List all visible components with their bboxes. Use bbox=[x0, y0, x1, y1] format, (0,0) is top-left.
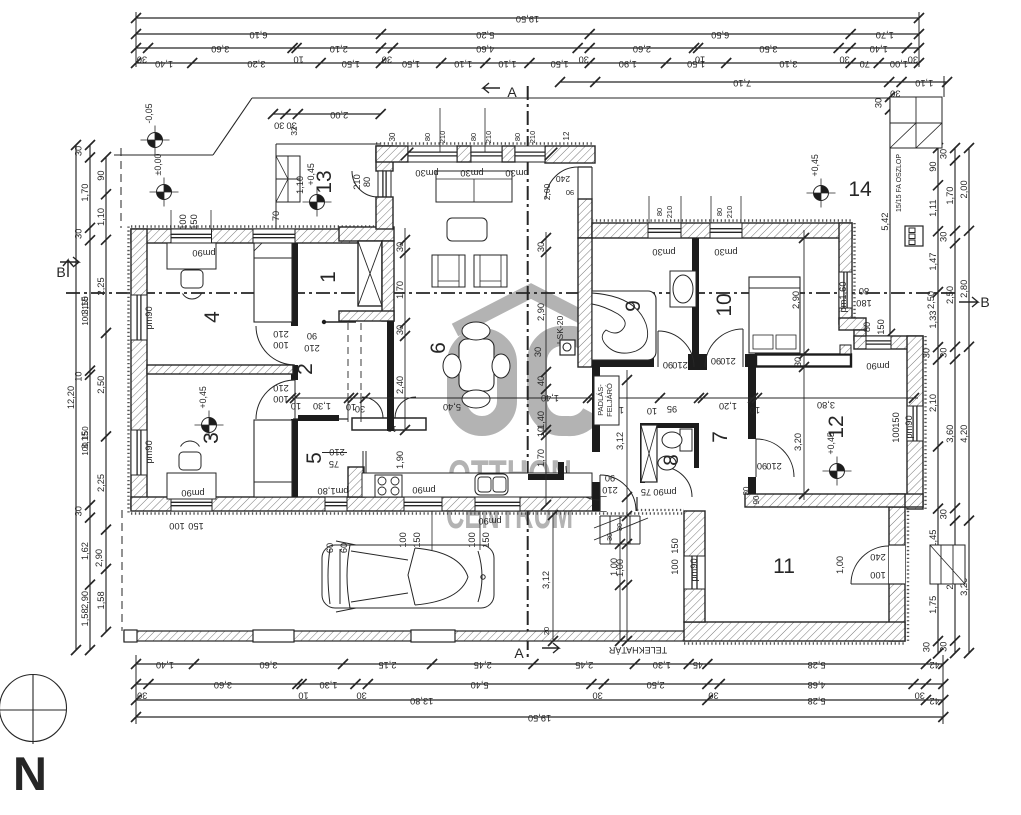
corridor door arcs bottom bbox=[362, 397, 383, 418]
svg-text:2,15: 2,15 bbox=[378, 660, 396, 670]
se bedroom corner jog bbox=[839, 318, 866, 330]
svg-text:210: 210 bbox=[665, 206, 674, 219]
svg-text:1,40: 1,40 bbox=[155, 59, 173, 69]
svg-text:1,75: 1,75 bbox=[928, 596, 938, 614]
svg-text:210: 210 bbox=[720, 356, 736, 366]
svg-text:3,20: 3,20 bbox=[793, 433, 803, 451]
svg-text:1,00: 1,00 bbox=[835, 556, 845, 574]
terrace13 steps bbox=[276, 156, 300, 202]
svg-text:210: 210 bbox=[273, 383, 289, 393]
elevation marker -0,05 bbox=[148, 133, 163, 148]
svg-text:3,60: 3,60 bbox=[259, 660, 277, 670]
svg-text:30: 30 bbox=[939, 509, 949, 519]
svg-text:5,40: 5,40 bbox=[443, 402, 461, 412]
svg-text:2,25: 2,25 bbox=[96, 474, 106, 492]
svg-text:20: 20 bbox=[542, 627, 551, 635]
svg-text:3,60: 3,60 bbox=[214, 680, 232, 690]
svg-text:2,50: 2,50 bbox=[96, 376, 106, 394]
svg-text:1: 1 bbox=[317, 271, 340, 283]
svg-text:2,40: 2,40 bbox=[395, 376, 405, 394]
section line A-A bbox=[527, 86, 529, 658]
svg-text:100: 100 bbox=[178, 214, 188, 230]
door room5 bbox=[322, 452, 347, 454]
svg-text:11: 11 bbox=[773, 555, 795, 578]
svg-text:80: 80 bbox=[362, 177, 372, 187]
bath9 south wall solid bbox=[592, 354, 654, 367]
svg-text:2,50: 2,50 bbox=[945, 286, 955, 304]
room4 chair bbox=[181, 270, 203, 288]
svg-text:2,45: 2,45 bbox=[575, 660, 593, 670]
bath9 west wall bbox=[578, 238, 592, 367]
svg-text:30: 30 bbox=[939, 642, 949, 652]
interior corridor wall rooms 4/3 bbox=[291, 243, 298, 326]
north arrow bbox=[0, 675, 67, 742]
svg-text:10: 10 bbox=[713, 293, 736, 316]
svg-text:70: 70 bbox=[860, 59, 870, 69]
svg-text:1,33: 1,33 bbox=[928, 311, 938, 329]
svg-text:30: 30 bbox=[793, 357, 803, 367]
right dimension chains bbox=[889, 97, 891, 334]
svg-text:1,70: 1,70 bbox=[395, 281, 405, 299]
svg-text:A: A bbox=[507, 84, 517, 100]
svg-text:±0,00: ±0,00 bbox=[153, 153, 163, 175]
bath9 door bbox=[658, 331, 694, 367]
svg-text:75: 75 bbox=[641, 487, 651, 497]
svg-text:B: B bbox=[56, 264, 65, 280]
vdim x=627 hall7 3,12 / 1,00 bbox=[626, 370, 628, 641]
svg-text:90: 90 bbox=[752, 495, 761, 504]
terrace13 door arc bbox=[352, 171, 378, 197]
svg-text:30: 30 bbox=[939, 149, 949, 159]
interior vdim living east x=546 bbox=[545, 232, 547, 505]
svg-text:100: 100 bbox=[81, 442, 90, 456]
svg-text:210: 210 bbox=[304, 343, 320, 353]
svg-text:32: 32 bbox=[289, 126, 299, 136]
svg-text:2,10: 2,10 bbox=[928, 394, 938, 412]
svg-text:1,10: 1,10 bbox=[295, 176, 305, 194]
svg-text:pm90: pm90 bbox=[904, 415, 914, 438]
svg-text:30: 30 bbox=[388, 132, 397, 141]
coffee table bbox=[447, 218, 487, 241]
svg-text:150: 150 bbox=[81, 426, 90, 440]
west wall bbox=[127, 227, 129, 515]
svg-text:150: 150 bbox=[876, 319, 886, 335]
left dimension chains bbox=[75, 145, 77, 650]
svg-text:N: N bbox=[13, 747, 47, 800]
svg-text:5,28: 5,28 bbox=[808, 660, 826, 670]
svg-text:240: 240 bbox=[556, 174, 570, 184]
svg-text:12: 12 bbox=[825, 415, 848, 438]
svg-text:210: 210 bbox=[528, 131, 537, 144]
svg-text:100: 100 bbox=[398, 532, 408, 548]
svg-text:30: 30 bbox=[922, 642, 932, 652]
garage door arc bbox=[851, 546, 889, 584]
svg-text:1,50: 1,50 bbox=[402, 59, 420, 69]
svg-text:100: 100 bbox=[273, 340, 289, 350]
svg-text:70: 70 bbox=[271, 211, 281, 221]
hall7 / room12 divider bbox=[748, 367, 756, 439]
svg-text:5,40: 5,40 bbox=[471, 680, 489, 690]
svg-text:60: 60 bbox=[339, 543, 349, 553]
svg-text:1,62: 1,62 bbox=[80, 542, 90, 560]
svg-text:1,10: 1,10 bbox=[915, 78, 933, 88]
svg-text:10: 10 bbox=[298, 691, 308, 701]
svg-text:90: 90 bbox=[96, 170, 106, 180]
svg-text:210: 210 bbox=[273, 329, 289, 339]
bed10 door bbox=[705, 329, 743, 367]
svg-text:210: 210 bbox=[352, 174, 362, 190]
svg-text:2: 2 bbox=[294, 363, 317, 375]
svg-text:210: 210 bbox=[329, 447, 345, 457]
svg-text:42: 42 bbox=[929, 660, 939, 670]
svg-text:1,50: 1,50 bbox=[342, 59, 360, 69]
svg-text:80: 80 bbox=[862, 322, 872, 332]
svg-text:80: 80 bbox=[423, 133, 432, 141]
svg-text:80: 80 bbox=[859, 286, 869, 296]
wc shaft bbox=[641, 425, 657, 482]
svg-text:30: 30 bbox=[74, 229, 84, 239]
svg-text:+0,45: +0,45 bbox=[198, 386, 208, 408]
svg-text:13: 13 bbox=[313, 170, 336, 193]
svg-text:1,90: 1,90 bbox=[619, 59, 637, 69]
svg-text:80: 80 bbox=[513, 133, 522, 141]
terrace steps chain 2,00 bbox=[273, 113, 381, 115]
svg-text:2,45: 2,45 bbox=[474, 660, 492, 670]
svg-text:150: 150 bbox=[81, 296, 90, 310]
svg-text:10: 10 bbox=[74, 371, 84, 381]
svg-text:60: 60 bbox=[325, 543, 335, 553]
svg-text:1,47: 1,47 bbox=[928, 253, 938, 271]
south wall west wing + kitchen bbox=[131, 512, 705, 514]
svg-text:1,50: 1,50 bbox=[551, 59, 569, 69]
svg-text:-0,05: -0,05 bbox=[144, 103, 154, 123]
svg-text:240: 240 bbox=[870, 552, 886, 562]
elevation marker ±0,00 bbox=[157, 185, 172, 200]
room3 chair bbox=[179, 452, 201, 470]
jog room12/garage bbox=[889, 494, 923, 507]
dim 3,12 south bbox=[552, 515, 554, 641]
svg-text:2,90: 2,90 bbox=[94, 549, 104, 567]
wc sink bbox=[658, 456, 676, 470]
svg-text:1,70: 1,70 bbox=[876, 30, 894, 40]
svg-text:1,30: 1,30 bbox=[653, 660, 671, 670]
svg-text:5: 5 bbox=[303, 452, 326, 464]
svg-text:3,10: 3,10 bbox=[779, 59, 797, 69]
padlas feljaro bbox=[594, 376, 619, 425]
svg-text:12,20: 12,20 bbox=[66, 386, 76, 409]
wc8 walls bbox=[640, 423, 698, 428]
svg-text:45: 45 bbox=[693, 660, 703, 670]
corner hatch triangle bbox=[840, 345, 851, 354]
svg-text:1,50: 1,50 bbox=[687, 59, 705, 69]
sink bbox=[475, 474, 508, 495]
svg-text:210: 210 bbox=[672, 360, 688, 370]
watermark OC Otthon Centrum logo bbox=[455, 291, 607, 426]
rooms 9/10 top wall bbox=[592, 219, 852, 221]
svg-text:3,20: 3,20 bbox=[247, 59, 265, 69]
vdim room10 2,90 bbox=[803, 230, 805, 500]
svg-text:2,90: 2,90 bbox=[80, 591, 90, 609]
elevation marker +0,45 bbox=[202, 418, 217, 433]
entry door bbox=[600, 475, 636, 511]
svg-text:pm30: pm30 bbox=[415, 168, 438, 178]
dining table bbox=[459, 339, 494, 391]
svg-text:90: 90 bbox=[307, 331, 317, 341]
room5 walls bbox=[293, 418, 348, 420]
interior vdim living west x=405 bbox=[404, 228, 406, 430]
svg-text:pm90: pm90 bbox=[144, 306, 154, 329]
living west wall + terrace door bbox=[376, 146, 393, 171]
svg-text:150: 150 bbox=[670, 538, 680, 554]
elevation marker +0,45 bbox=[814, 186, 829, 201]
svg-text:1,20: 1,20 bbox=[719, 401, 737, 411]
svg-text:1,10: 1,10 bbox=[498, 59, 516, 69]
east garage steps bbox=[930, 545, 965, 584]
divider 9/10 bbox=[692, 238, 699, 356]
svg-text:9: 9 bbox=[622, 300, 645, 312]
armchair 2 bbox=[474, 255, 507, 287]
room4 bed bbox=[254, 243, 292, 322]
svg-text:42: 42 bbox=[929, 696, 939, 706]
svg-text:30: 30 bbox=[137, 691, 147, 701]
kitchen/hall wall bbox=[592, 367, 600, 452]
svg-text:30: 30 bbox=[533, 347, 543, 357]
svg-text:75: 75 bbox=[329, 459, 339, 469]
svg-text:1,40: 1,40 bbox=[536, 411, 546, 429]
svg-text:30: 30 bbox=[617, 523, 624, 531]
svg-text:1,70: 1,70 bbox=[80, 184, 90, 202]
svg-text:100: 100 bbox=[169, 521, 185, 531]
svg-text:10: 10 bbox=[750, 405, 760, 415]
svg-text:2,80: 2,80 bbox=[959, 280, 969, 298]
svg-text:30: 30 bbox=[708, 691, 718, 701]
svg-text:1,00: 1,00 bbox=[890, 59, 908, 69]
svg-text:A: A bbox=[514, 645, 524, 661]
svg-text:7,10: 7,10 bbox=[733, 78, 751, 88]
svg-text:10: 10 bbox=[291, 401, 301, 411]
svg-text:210: 210 bbox=[438, 131, 447, 144]
bedroom10 east wall bbox=[853, 223, 855, 318]
svg-text:5,42: 5,42 bbox=[880, 213, 890, 231]
svg-text:30: 30 bbox=[74, 146, 84, 156]
washbasin bath9 bbox=[670, 271, 696, 307]
svg-text:1,58: 1,58 bbox=[96, 591, 106, 609]
svg-text:4,20: 4,20 bbox=[959, 425, 969, 443]
svg-text:pm1,60: pm1,60 bbox=[838, 281, 848, 312]
window axis ext lines bbox=[431, 511, 433, 550]
terrace13 outline bbox=[275, 144, 277, 229]
svg-text:3,60: 3,60 bbox=[211, 44, 229, 54]
svg-text:10: 10 bbox=[647, 406, 657, 416]
garage south wall bbox=[684, 642, 905, 644]
interior dim chain horizontal y=398 bbox=[291, 397, 918, 399]
svg-text:PADLÁS-: PADLÁS- bbox=[596, 384, 605, 416]
elevation marker +0,45 bbox=[310, 195, 325, 210]
svg-text:100: 100 bbox=[467, 532, 477, 548]
svg-text:90: 90 bbox=[711, 356, 721, 366]
svg-text:30: 30 bbox=[915, 691, 925, 701]
svg-text:3,50: 3,50 bbox=[759, 44, 777, 54]
svg-text:10: 10 bbox=[346, 402, 356, 412]
svg-text:100: 100 bbox=[891, 427, 901, 443]
svg-text:2,60: 2,60 bbox=[633, 44, 651, 54]
south entry steps bbox=[599, 516, 601, 544]
svg-text:150: 150 bbox=[481, 532, 491, 548]
svg-text:30: 30 bbox=[742, 486, 751, 495]
svg-text:30: 30 bbox=[607, 533, 614, 541]
wc door bbox=[662, 467, 692, 497]
svg-text:TELEKHATÁR: TELEKHATÁR bbox=[608, 645, 667, 655]
svg-text:10: 10 bbox=[536, 427, 546, 437]
svg-text:6: 6 bbox=[427, 342, 450, 354]
wc toilet bbox=[680, 429, 692, 451]
svg-text:pm30: pm30 bbox=[714, 247, 737, 257]
living east wall + terrace door opening bbox=[578, 167, 592, 199]
svg-text:95: 95 bbox=[667, 404, 677, 414]
svg-text:150: 150 bbox=[188, 521, 204, 531]
svg-text:180: 180 bbox=[856, 298, 872, 308]
svg-text:pm90: pm90 bbox=[412, 485, 435, 495]
svg-text:2,00: 2,00 bbox=[542, 183, 552, 200]
svg-text:FELJÁRÓ: FELJÁRÓ bbox=[605, 383, 614, 417]
svg-text:5,28: 5,28 bbox=[808, 696, 826, 706]
svg-text:pm90: pm90 bbox=[689, 558, 699, 581]
divider room4/room3 bbox=[147, 365, 293, 374]
svg-text:210: 210 bbox=[725, 206, 734, 219]
svg-text:90: 90 bbox=[566, 188, 574, 197]
svg-text:30: 30 bbox=[356, 691, 366, 701]
hall1 top wall + flue bbox=[339, 227, 394, 241]
bath tub bbox=[592, 291, 656, 360]
west wing top wall bbox=[131, 225, 376, 227]
svg-text:14: 14 bbox=[848, 178, 872, 201]
svg-text:30: 30 bbox=[395, 242, 405, 252]
svg-text:30: 30 bbox=[939, 232, 949, 242]
svg-text:90: 90 bbox=[757, 461, 767, 471]
svg-text:19,50: 19,50 bbox=[516, 14, 539, 24]
svg-text:100: 100 bbox=[670, 559, 680, 575]
svg-text:4,60: 4,60 bbox=[476, 44, 494, 54]
svg-text:1,58: 1,58 bbox=[80, 608, 90, 626]
svg-text:1,30: 1,30 bbox=[313, 401, 331, 411]
svg-text:150: 150 bbox=[189, 214, 199, 230]
svg-text:pm90: pm90 bbox=[144, 440, 154, 463]
svg-text:13,80: 13,80 bbox=[410, 696, 433, 706]
svg-text:1,40: 1,40 bbox=[870, 44, 888, 54]
svg-text:2,90: 2,90 bbox=[536, 303, 546, 321]
hall7-room12 door bbox=[756, 439, 794, 477]
svg-text:3,80: 3,80 bbox=[817, 400, 835, 410]
dining chairs bbox=[462, 322, 490, 340]
door room3 bbox=[294, 380, 296, 419]
room5 east wall hatched block bbox=[348, 467, 364, 497]
black wall stub kitchen bbox=[528, 474, 564, 480]
svg-text:8: 8 bbox=[660, 454, 683, 466]
svg-text:2,00: 2,00 bbox=[959, 180, 969, 198]
svg-text:1,70: 1,70 bbox=[536, 449, 546, 467]
svg-text:150: 150 bbox=[412, 532, 422, 548]
top-right terrace steps bbox=[890, 97, 942, 148]
corridor2 west wall lower bbox=[298, 415, 339, 421]
svg-text:1,40: 1,40 bbox=[541, 393, 559, 403]
door room4 bbox=[256, 326, 295, 365]
svg-text:4,68: 4,68 bbox=[808, 680, 826, 690]
svg-text:pm30: pm30 bbox=[652, 247, 675, 257]
svg-text:80: 80 bbox=[469, 133, 478, 141]
bed10 south wall outlined bbox=[745, 354, 756, 367]
svg-text:1,11: 1,11 bbox=[928, 199, 938, 216]
svg-text:12: 12 bbox=[562, 131, 571, 140]
dim 1,00 south bbox=[619, 516, 621, 641]
svg-text:pm90: pm90 bbox=[192, 248, 215, 258]
svg-text:1,70: 1,70 bbox=[945, 187, 955, 205]
svg-text:30: 30 bbox=[939, 348, 949, 358]
entry door opening south bbox=[600, 497, 637, 511]
svg-text:30: 30 bbox=[355, 404, 365, 414]
garage east wall bbox=[907, 507, 909, 641]
svg-text:90: 90 bbox=[928, 161, 938, 171]
svg-text:pm90: pm90 bbox=[653, 487, 676, 497]
terrace 14 door arc bbox=[546, 167, 578, 199]
svg-text:30: 30 bbox=[536, 242, 546, 252]
svg-text:150: 150 bbox=[891, 412, 901, 428]
svg-text:90: 90 bbox=[605, 473, 615, 483]
section line B-B bbox=[66, 292, 958, 294]
svg-text:3,60: 3,60 bbox=[945, 425, 955, 443]
svg-text:pm1,80: pm1,80 bbox=[317, 486, 348, 496]
living top wall bbox=[376, 142, 592, 144]
svg-text:2,00: 2,00 bbox=[330, 110, 348, 120]
top dimension chains bbox=[136, 17, 919, 19]
svg-text:80: 80 bbox=[655, 208, 664, 216]
svg-text:30: 30 bbox=[395, 325, 405, 335]
property dashed line left bbox=[120, 148, 122, 228]
svg-text:1,90: 1,90 bbox=[395, 451, 405, 469]
svg-text:30: 30 bbox=[74, 506, 84, 516]
svg-text:pm90: pm90 bbox=[478, 516, 501, 526]
svg-text:80: 80 bbox=[715, 208, 724, 216]
svg-text:6,10: 6,10 bbox=[249, 30, 267, 40]
attic ladder dashed bbox=[347, 323, 349, 393]
garage west wall bbox=[684, 511, 705, 622]
room 12 south wall bbox=[745, 494, 905, 507]
svg-text:210: 210 bbox=[766, 461, 782, 471]
svg-text:pm30: pm30 bbox=[460, 168, 483, 178]
svg-text:90: 90 bbox=[663, 360, 673, 370]
living sofa bbox=[436, 171, 512, 202]
svg-text:2,50: 2,50 bbox=[647, 680, 665, 690]
svg-text:4: 4 bbox=[201, 311, 224, 323]
svg-text:pm90: pm90 bbox=[866, 361, 889, 371]
svg-text:1,30: 1,30 bbox=[319, 680, 337, 690]
svg-text:6,50: 6,50 bbox=[711, 30, 729, 40]
bed room10 bbox=[749, 277, 800, 353]
svg-text:100: 100 bbox=[81, 312, 90, 326]
svg-text:100: 100 bbox=[870, 570, 886, 580]
svg-text:30: 30 bbox=[274, 121, 284, 131]
kitchen counter bbox=[362, 473, 592, 497]
stove bbox=[375, 475, 402, 497]
room4 desk bbox=[167, 243, 216, 269]
property outline top bbox=[114, 154, 213, 156]
svg-text:7: 7 bbox=[709, 431, 732, 443]
svg-text:2,10: 2,10 bbox=[330, 44, 348, 54]
room3 desk bbox=[167, 473, 216, 499]
svg-text:2,90: 2,90 bbox=[791, 291, 801, 309]
svg-text:1,10: 1,10 bbox=[96, 208, 106, 226]
svg-text:3,12: 3,12 bbox=[615, 432, 625, 450]
svg-text:pm90: pm90 bbox=[181, 488, 204, 498]
